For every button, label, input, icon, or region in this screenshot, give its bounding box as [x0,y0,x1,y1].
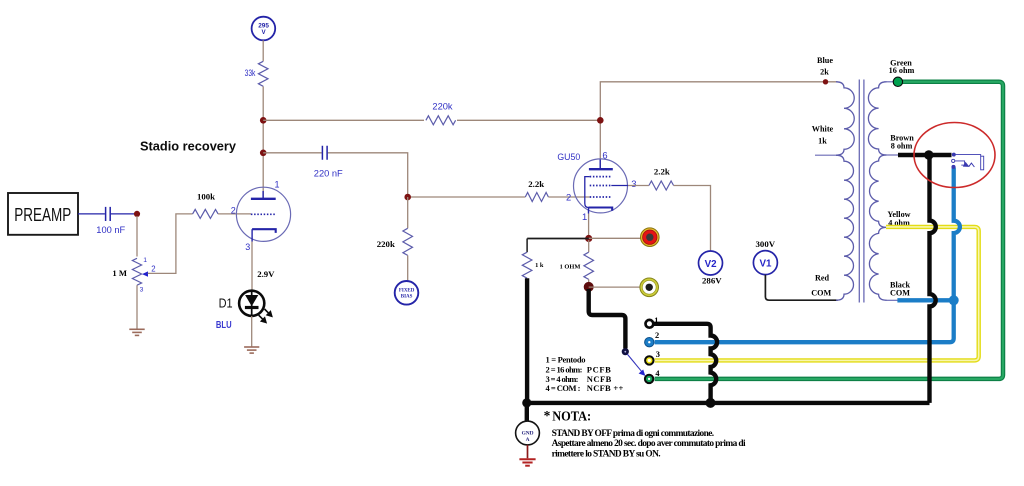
wire bus to GND A [525,403,529,422]
svg-text:1: 1 [275,180,280,190]
tap stub Green [884,81,895,83]
resistor R 1k [522,239,544,279]
svg-text:*: * [544,408,551,423]
tap stub Brown [887,154,899,156]
svg-text:16 ohm: 16 ohm [889,66,915,75]
svg-text:3: 3 [140,286,144,293]
node Green 16 ohm terminal [893,77,902,86]
wire black 8 ohm vertical [930,155,936,403]
resistor R 2.2k screen [649,167,674,190]
note body [552,429,746,460]
svg-text:220k: 220k [432,102,453,112]
wire GU50 plate node [600,82,837,169]
svg-text:1: 1 [654,316,658,325]
wire green 16 ohm run [655,82,1003,379]
wire 100k to triode grid [218,213,251,215]
svg-text:2: 2 [655,331,659,340]
ground earth GND A [519,459,535,466]
transformer core [859,80,864,303]
resistor R 33k [245,61,268,86]
block PREAMP [8,193,78,235]
capacitor C 100nF [78,207,134,235]
svg-text:A: A [526,437,530,443]
wire pot wiper to 100k [148,214,193,274]
meter GND A [516,421,540,445]
svg-text:Red: Red [815,273,830,282]
resistor R 1 OHM [560,252,594,279]
resistor R 220k feedback [424,102,457,127]
svg-text:D1: D1 [219,295,233,310]
svg-text:V1: V1 [760,258,773,269]
node cathode junction [585,235,592,242]
wire sense to pole [589,289,626,349]
svg-text:GND: GND [522,431,534,437]
connector RCA white [640,278,659,297]
pentode GU50 [557,149,636,222]
wire pot pin3 to ground [136,285,138,329]
svg-text:3: 3 [245,242,250,252]
svg-text:PREAMP: PREAMP [14,205,71,225]
svg-text:2: 2 [566,191,571,202]
svg-text:rimettere lo STAND BY su ON.: rimettere lo STAND BY su ON. [552,449,661,459]
svg-text:6: 6 [602,149,607,160]
svg-text:1 k: 1 k [535,262,544,269]
switch contact 1 [646,320,654,328]
wire junction to pot pin1 [136,216,138,257]
wire feedback net [263,119,600,121]
node plate junction [597,117,604,124]
svg-text:STAND BY OFF prima di ogni com: STAND BY OFF prima di ogni commutazione. [552,429,715,439]
tap stub Yellow [887,226,892,228]
tap White 1k [815,154,836,156]
node Blue 2k tap [823,79,828,84]
svg-text:COM: COM [890,289,910,298]
svg-text:2.9V: 2.9V [257,269,275,279]
wire triode cathode to D1 [251,242,253,292]
svg-text:8 ohm: 8 ohm [891,142,913,151]
svg-text:2 = 16 ohm:: 2 = 16 ohm: [546,364,583,374]
wire blue COM run [655,168,960,343]
tap stub Black COM [886,299,899,301]
wire 1k to bus [525,278,529,403]
svg-text:300V: 300V [756,239,776,249]
svg-text:White: White [812,124,834,133]
svg-text:NOTA:: NOTA: [552,408,591,423]
svg-text:GU50: GU50 [557,152,580,162]
potentiometer R 1M [112,257,155,293]
capacitor C 220nF [314,146,343,179]
wire black 8 ohm stub [898,153,952,157]
node coupling junction [260,150,267,157]
svg-text:3: 3 [631,178,636,189]
wire 33k down to plate node [262,86,264,198]
svg-text:2.2k: 2.2k [654,167,670,177]
wire 1 OHM to node [588,279,590,284]
switch selector [627,354,642,372]
svg-text:FIXED: FIXED [399,288,415,293]
wire ground bus [527,401,930,405]
svg-text:NCFB ++: NCFB ++ [587,383,624,393]
source FIXED BIAS [395,281,419,305]
wire GU50 cathode [588,214,590,237]
resistor R 220k bias [377,228,413,255]
switch contact 2 [645,338,654,347]
wire D1 to ground [251,316,253,347]
ground D1 [244,347,259,353]
power source 295V [252,17,276,41]
wire to fixed bias [407,255,409,281]
jack switch symbol [952,153,984,170]
resistor R 100k [193,191,219,218]
resistor R 2.2k grid [525,179,548,201]
svg-text:Blue: Blue [817,56,833,65]
svg-text:2.2k: 2.2k [528,179,544,189]
svg-text:220k: 220k [377,239,395,249]
wire coupling net [263,153,525,197]
node preamp junction [134,211,140,217]
svg-text:1 M: 1 M [112,268,127,278]
highlight ellipse [914,123,995,188]
svg-text:1k: 1k [818,137,827,146]
switch pole [622,348,629,355]
svg-text:3: 3 [656,350,660,359]
svg-text:Stadio recovery: Stadio recovery [140,138,237,153]
svg-text:BLU: BLU [216,320,232,331]
svg-text:2k: 2k [820,68,829,77]
svg-text:100k: 100k [197,191,215,201]
wire junction to R 220k bias [407,197,409,228]
svg-text:286V: 286V [702,275,722,285]
svg-text:1: 1 [143,257,147,264]
node feedback junction [260,117,267,124]
svg-text:COM: COM [811,289,831,298]
svg-text:33k: 33k [245,68,256,78]
wire contact1 loop [654,324,718,403]
node sense junction [584,282,594,292]
node bus left [522,398,531,407]
svg-text:4 = COM :: 4 = COM : [546,383,581,393]
wire GU50 pin3 to 2.2k [628,185,649,187]
transformer secondary winding [868,82,886,155]
node grid junction [404,194,411,201]
wire V1 to Red COM [765,275,837,300]
switch contact 4 [645,375,653,383]
svg-text:100 nF: 100 nF [96,225,125,235]
wire yellow 4 ohm run [655,227,979,361]
switch contact 3 [645,356,653,364]
node bus loop junction [706,398,716,408]
node Brown 8 ohm junction [924,150,933,159]
svg-text:1: 1 [582,211,587,222]
LED D1 [216,291,272,331]
svg-text:2: 2 [231,205,236,215]
node blue junction [949,295,959,305]
svg-text:PCFB: PCFB [587,364,611,374]
svg-text:BIAS: BIAS [401,295,413,300]
wire 2.2k to GU50 grid [548,196,589,198]
triode V recovery [231,180,291,252]
wire GND A to earth [527,445,529,458]
meter V1 [753,251,777,275]
wire cathode to 1k [527,238,589,240]
wire 2.2k to V2 [674,186,711,252]
svg-text:Aspettare almeno 20 sec. dopo: Aspettare almeno 20 sec. dopo aver commu… [552,439,746,449]
wire 295V to R 33k [262,40,264,61]
wire cathode to 1 OHM [588,240,590,252]
svg-text:V2: V2 [705,259,718,270]
svg-text:1 = Pentodo: 1 = Pentodo [546,354,586,364]
svg-text:2: 2 [151,265,155,274]
ground pot [129,329,144,335]
connector RCA red [641,228,660,247]
svg-text:1 OHM: 1 OHM [560,263,581,270]
legend switch positions [546,354,624,393]
wire cathode to red RCA [589,237,641,239]
svg-text:220 nF: 220 nF [314,168,343,178]
wire node to white RCA [589,286,640,288]
meter V2 [699,251,723,275]
transformer primary winding [836,82,854,155]
